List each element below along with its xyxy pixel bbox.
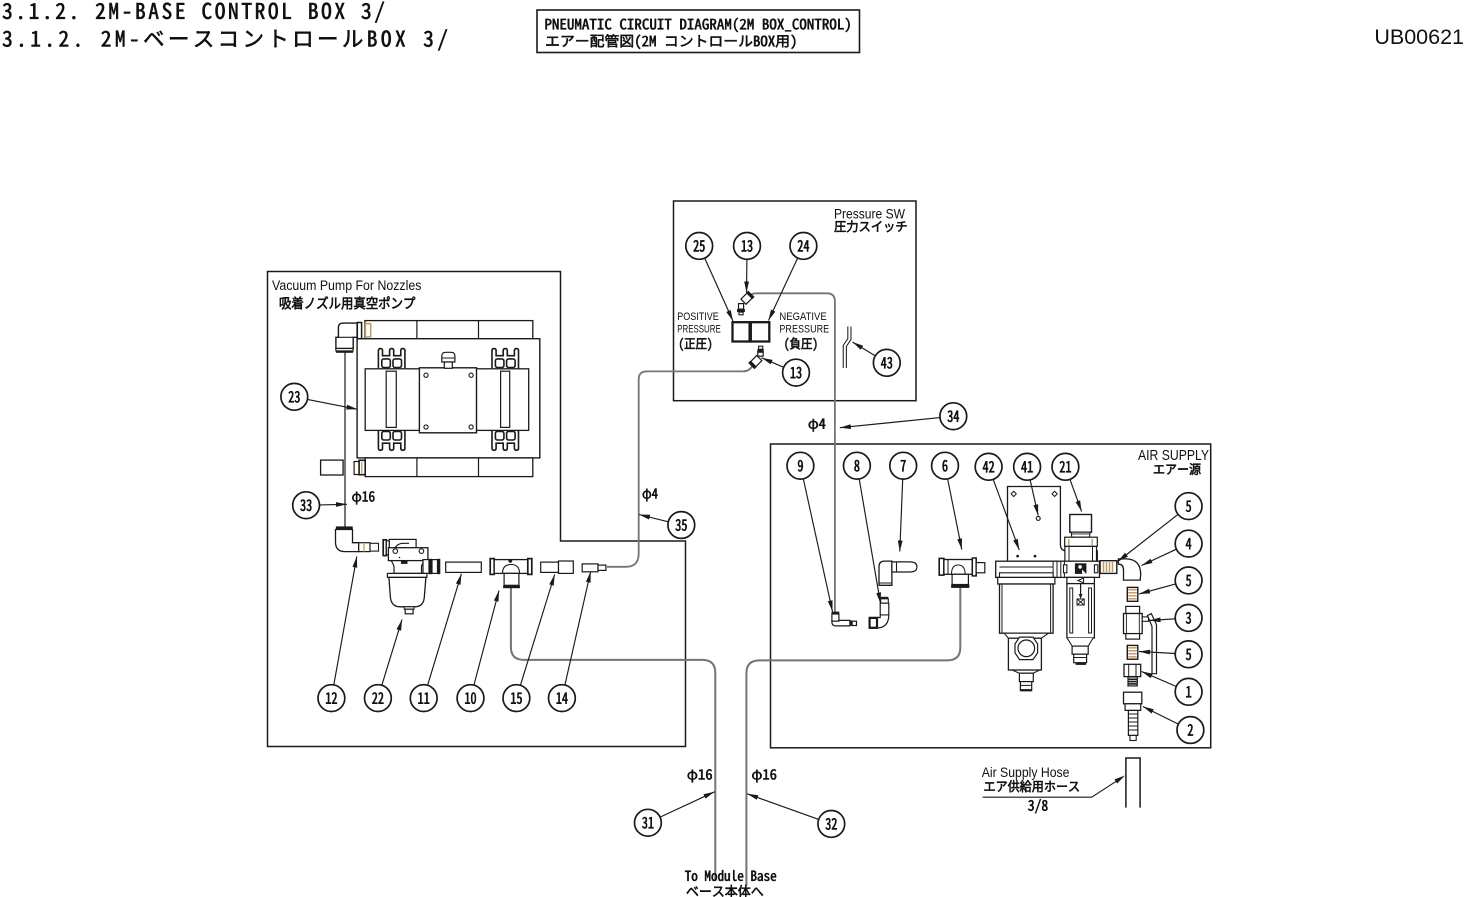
leader to 43 — [853, 342, 876, 356]
fitting 14 — [582, 564, 598, 572]
pump inlet elbow — [336, 323, 357, 348]
leader to 31 — [660, 792, 714, 817]
regulator 21 flange — [1065, 537, 1098, 546]
ribbed coupler 5 (top) — [1100, 561, 1117, 574]
balloon 31 — [635, 809, 662, 836]
balloon 13 — [734, 233, 761, 260]
leader to 11 — [428, 574, 462, 686]
ribbed coupler 5 (middle) — [1127, 587, 1138, 601]
ball valve 3 — [1126, 606, 1140, 613]
filter 22 bowl — [387, 573, 427, 577]
leader to 4 — [1142, 549, 1177, 565]
filter unit flange — [1000, 566, 1054, 568]
balloon 4 — [1175, 530, 1202, 557]
elbow 4 — [1118, 559, 1140, 580]
regulator body between flange and band — [1065, 546, 1097, 561]
balloon 13 — [783, 359, 810, 386]
filter 22 inlet bands — [383, 540, 386, 556]
wire: phi16 tube from fitting 6 down to module base (32) — [746, 587, 960, 886]
pressure switch squares (positive) — [733, 322, 750, 341]
leader to 33 — [320, 503, 348, 506]
pump right slot — [501, 371, 510, 427]
balloon 21 — [1052, 453, 1079, 480]
balloon 1 — [1175, 678, 1202, 705]
balloon 42 — [975, 453, 1002, 480]
svg-text:Pressure SW: Pressure SW — [834, 206, 905, 221]
balloon 9 — [787, 452, 814, 479]
ribbed coupler 5 (bottom) — [1127, 645, 1138, 659]
pressure SW label JP — [834, 220, 906, 232]
air supply hose (3/8) — [1126, 758, 1140, 808]
phi4 label (tube 34) — [809, 419, 826, 432]
pipe nipple 11 — [446, 562, 482, 572]
leader to 6 — [948, 479, 962, 550]
balloon 35 — [668, 512, 695, 539]
leader to 25 — [705, 258, 733, 321]
phi16 label (tube 32) — [752, 769, 776, 782]
svg-text:NEGATIVE: NEGATIVE — [779, 311, 826, 323]
filter 22 drain — [404, 607, 414, 609]
vacuum pump box (L-shaped) — [268, 272, 686, 747]
balloon 41 — [1014, 453, 1041, 480]
regulator 21 knob — [1070, 515, 1092, 533]
leader to 5b — [1139, 584, 1176, 594]
svg-text:Air Supply Hose: Air Supply Hose — [982, 765, 1070, 780]
leader to 34 — [840, 418, 940, 428]
balloon 7 — [890, 452, 917, 479]
phi16 label (tube 33) — [352, 491, 374, 504]
pump left slot — [386, 371, 396, 427]
balloon 5 — [1175, 641, 1202, 668]
balloon 24 — [790, 233, 817, 260]
leader to 32 — [747, 794, 819, 820]
balloon 43 — [873, 349, 900, 376]
elbow fitting 12 — [336, 530, 359, 552]
lubricator unit — [1064, 565, 1067, 573]
leader to 7 — [900, 479, 903, 551]
pump top cylinder — [365, 321, 533, 340]
leader to 5a — [1118, 514, 1178, 561]
svg-text:POSITIVE: POSITIVE — [677, 311, 719, 323]
balloon 22 — [365, 685, 392, 712]
svg-text:Vacuum Pump For Nozzles: Vacuum Pump For Nozzles — [272, 278, 422, 293]
tee fitting 6 — [939, 558, 944, 575]
wire: phi16 tube from pump elbow down to elbow 12 — [344, 351, 346, 534]
leader to 41 — [1030, 480, 1038, 516]
hose leader line — [983, 777, 1123, 797]
leader to 23 — [307, 399, 357, 409]
balloon 8 — [844, 452, 871, 479]
elbow 12 outlet pipe — [359, 543, 370, 552]
header box — [537, 10, 860, 53]
leader to 35 — [639, 515, 668, 522]
air supply label JP — [1154, 463, 1201, 475]
header text line 2 — [546, 34, 795, 49]
elbow fitting 7 — [879, 561, 892, 585]
pump bottom-left port — [321, 460, 344, 475]
balloon 23 — [281, 383, 308, 410]
leader to 12 — [334, 557, 357, 685]
mounting plate 42 — [1008, 487, 1098, 562]
leader to 21 — [1070, 479, 1082, 511]
pump center plate — [419, 368, 476, 433]
balloon 34 — [940, 403, 967, 430]
leader to 10 — [474, 591, 499, 686]
wire: phi16 tube from tee 10 down to module base (31) — [511, 588, 715, 881]
balloon 25 — [686, 233, 713, 260]
filter unit bowl — [1000, 584, 1054, 633]
balloon 6 — [932, 452, 959, 479]
leader to 22 — [382, 620, 402, 686]
hose barb 2 — [1124, 692, 1142, 704]
phi16 label (tube 31) — [688, 769, 712, 782]
pressure SW box — [674, 201, 917, 401]
balloon 5 — [1175, 493, 1202, 520]
balloon 11 — [410, 685, 437, 712]
bent pipe item 43 — [845, 327, 850, 369]
balloon 2 — [1177, 717, 1204, 744]
balloon 32 — [818, 811, 845, 838]
phi4 label (tube 35) — [643, 489, 658, 502]
leader to 14 — [565, 572, 591, 686]
lubricator bottom — [1067, 638, 1093, 646]
filter unit lower block with hex drain — [1004, 633, 1048, 638]
filter 22 neck — [391, 561, 424, 574]
pump top cap — [442, 352, 455, 362]
vacuum pump box label JP — [280, 296, 415, 309]
balloon 33 — [293, 492, 320, 519]
air supply box — [771, 444, 1211, 748]
balloon 15 — [503, 685, 530, 712]
leader to 8 — [859, 479, 880, 604]
FRL manifold band — [996, 561, 1100, 577]
leader to 13b — [762, 358, 784, 368]
header text line 1 — [546, 18, 850, 32]
pump bottom cylinder — [365, 458, 533, 477]
balloon 10 — [457, 685, 484, 712]
filter 22 head block — [388, 548, 428, 561]
fitting 13 (bottom, on negative switch) — [759, 346, 763, 349]
pressure switch squares (negative) — [751, 322, 770, 341]
lubricator sight glass — [1067, 584, 1095, 638]
To Module Base — [685, 870, 776, 881]
leader to 24 — [769, 258, 798, 321]
pump middle slabs — [365, 369, 529, 431]
Z-elbow fitting 8 — [881, 597, 889, 599]
pump main body — [357, 339, 540, 458]
leader to 9 — [803, 479, 832, 612]
ball valve 3 handle — [1142, 617, 1148, 621]
fitting 1 — [1124, 664, 1141, 676]
leader to 13 — [746, 259, 748, 292]
title line 1 — [3, 2, 384, 23]
leader to 15 — [520, 575, 554, 686]
svg-text:UB00621: UB00621 — [1374, 25, 1464, 49]
balloon 12 — [318, 685, 345, 712]
svg-text:PRESSURE: PRESSURE — [779, 323, 829, 335]
tee fitting 10 — [490, 559, 494, 575]
balloon 14 — [549, 685, 576, 712]
wire: phi4 tube positive pressure to elbow 9 — [749, 293, 835, 612]
leader to 1 — [1142, 672, 1177, 687]
leader to 2 — [1143, 707, 1179, 725]
filter 22 top body — [389, 539, 416, 550]
filter 22 right outlet couplers — [423, 560, 429, 574]
elbow fitting 9 — [832, 612, 840, 614]
svg-text:PRESSURE: PRESSURE — [677, 323, 721, 335]
pump cooling fins — [378, 349, 405, 369]
pump inlet fitting — [357, 323, 361, 339]
title line 2 (Japanese) — [3, 29, 447, 50]
wire: phi4 tube negative pressure to fitting 14 — [607, 365, 754, 567]
svg-text:AIR SUPPLY: AIR SUPPLY — [1138, 448, 1209, 464]
leader to 3 — [1150, 619, 1176, 621]
balloon 5 — [1175, 567, 1202, 594]
tee 10 bottom stub — [504, 573, 519, 585]
pipe nipple 15 — [541, 562, 559, 572]
balloon 3 — [1175, 605, 1202, 632]
leader to 5c — [1139, 652, 1175, 654]
fitting 13 (top, on positive switch) — [739, 312, 743, 315]
leader to 42 — [993, 479, 1019, 550]
